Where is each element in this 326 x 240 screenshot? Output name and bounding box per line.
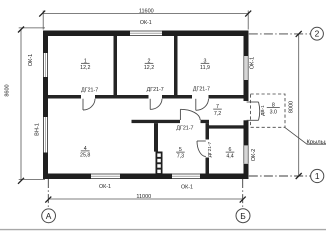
label room7 7/7,2	[213, 104, 222, 117]
label room6 6/4,4	[226, 147, 235, 159]
svg-text:3.0: 3.0	[270, 109, 277, 115]
wall interior room2-room3	[174, 36, 178, 95]
wall bottom exterior	[43, 174, 249, 180]
svg-text:11000: 11000	[136, 194, 151, 200]
wall left exterior	[43, 31, 48, 180]
axis circle A	[42, 209, 56, 223]
axis circle 2	[311, 27, 324, 40]
label room2 2/12,2	[144, 58, 154, 70]
window OK-1 bottom wall right	[172, 173, 200, 179]
dimension bottom 11000	[48, 198, 242, 200]
axis circle 1	[311, 169, 324, 182]
svg-text:ОК-1: ОК-1	[99, 184, 111, 190]
axis B line	[242, 179, 244, 209]
svg-text:4,4: 4,4	[226, 154, 233, 160]
svg-text:ДВ-1: ДВ-1	[260, 105, 266, 116]
svg-text:ДГ21-7: ДГ21-7	[81, 88, 98, 94]
label porch 8/3.0	[267, 102, 280, 115]
dimension right 8000	[298, 34, 300, 176]
label room5 5/7,3	[176, 147, 185, 159]
svg-text:ОК-2: ОК-2	[251, 149, 257, 162]
axis 1 line	[249, 175, 311, 177]
wall corridor bottom segments	[132, 120, 181, 123]
window OK-1 bottom wall left	[91, 173, 120, 179]
window OK-1 right wall upper	[243, 56, 249, 80]
svg-text:А: А	[46, 211, 52, 221]
wall interior room1-room2	[114, 36, 118, 95]
door room5 leaf+arc	[180, 109, 200, 120]
door entrance leaf+arc	[247, 102, 260, 120]
dimension top 11600	[42, 11, 249, 30]
svg-text:11600: 11600	[139, 9, 154, 15]
leader line porch	[285, 127, 326, 144]
door room1 leaf+arc	[83, 99, 95, 110]
entrance door opening right wall	[243, 101, 249, 120]
wall right exterior	[244, 31, 249, 180]
svg-text:Б: Б	[240, 211, 246, 221]
label room1 1/12,2	[80, 58, 90, 70]
wall room5-room6 vertical lower	[206, 158, 210, 174]
wall interior main horizontal segments	[48, 95, 81, 99]
svg-text:ОК-1: ОК-1	[140, 20, 152, 26]
svg-text:1: 1	[315, 171, 320, 181]
svg-text:12,2: 12,2	[80, 65, 90, 71]
wall top exterior	[43, 31, 249, 37]
svg-text:ДГ21-7: ДГ21-7	[176, 125, 193, 131]
sheet border line bottom	[0, 229, 326, 231]
svg-text:7,2: 7,2	[214, 111, 221, 117]
svg-text:7,3: 7,3	[177, 154, 184, 160]
window VN-1 left wall lower	[43, 117, 49, 153]
stove block	[156, 152, 163, 174]
porch dashed outline	[251, 94, 286, 127]
svg-text:ДГ21-7: ДГ21-7	[193, 86, 210, 92]
axis circle B	[236, 209, 250, 223]
svg-text:ДГ21-7: ДГ21-7	[147, 87, 164, 93]
window OK-1 left wall upper	[43, 53, 49, 77]
wall room6 top	[206, 125, 244, 128]
svg-text:2: 2	[315, 29, 320, 39]
svg-text:11,9: 11,9	[200, 65, 210, 71]
svg-text:8600: 8600	[4, 84, 10, 96]
svg-text:25,8: 25,8	[80, 152, 90, 158]
wall room5-room6 vertical upper	[206, 123, 210, 139]
svg-text:ВН-1: ВН-1	[35, 123, 41, 136]
door room6 leaf+arc	[197, 141, 206, 157]
label room4 4/25,8	[80, 146, 90, 159]
door room3 leaf+arc	[196, 99, 209, 111]
svg-text:ОК-1: ОК-1	[28, 54, 34, 67]
svg-text:ОК-1: ОК-1	[250, 57, 256, 70]
svg-text:Крыльцо: Крыльцо	[307, 139, 326, 145]
window OK-2 right wall lower	[243, 145, 249, 163]
dimension left 8600	[19, 28, 45, 181]
axis A line	[47, 179, 49, 209]
svg-text:8000: 8000	[289, 101, 295, 113]
svg-text:12,2: 12,2	[144, 65, 154, 71]
svg-text:ОК-1: ОК-1	[181, 185, 193, 191]
svg-text:ДГ21-7: ДГ21-7	[207, 141, 213, 157]
label room3 3/11,9	[200, 58, 210, 70]
door room2 leaf+arc	[150, 99, 162, 110]
axis 2 line	[249, 33, 311, 35]
wall room4-room5 vertical	[154, 123, 158, 152]
window OK-1 top wall	[130, 30, 162, 36]
